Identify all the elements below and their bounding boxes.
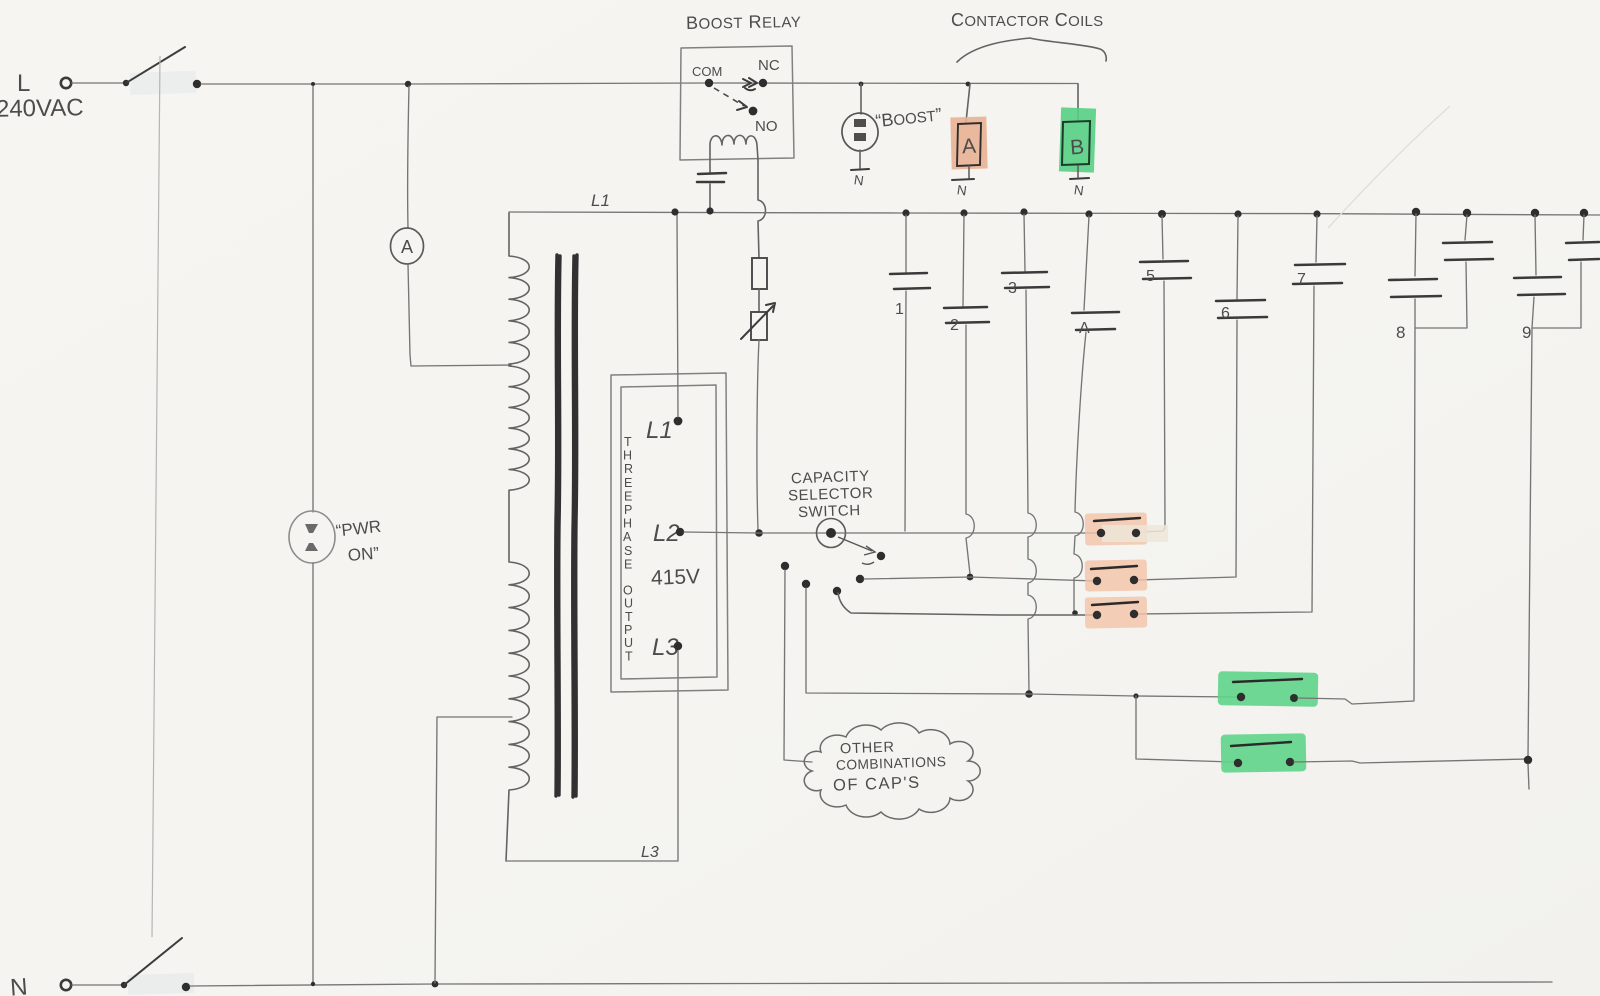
node: transformer tap 2 joins N bus	[432, 981, 439, 988]
node: selector position 2	[856, 575, 864, 583]
wire: transformer bottom to L3 (terminal riser)	[506, 650, 678, 861]
wire: branch down to contact KB2	[1136, 696, 1233, 762]
svg-text:A: A	[961, 135, 976, 159]
stray pencil arc (decorative)	[1328, 106, 1450, 228]
wire: KB1 to C8 drop	[1298, 698, 1414, 704]
svg-text:6: 6	[1221, 305, 1230, 322]
wire: C8 drop to contact KB1	[1414, 328, 1415, 700]
svg-text:ON”: ON”	[347, 544, 380, 565]
svg-text:L: L	[17, 70, 30, 97]
node: C2 joins row 2	[967, 574, 974, 581]
wire: N terminal to switch	[72, 984, 122, 986]
cloud note: OTHER COMBINATIONS OF CAP'S	[804, 723, 980, 819]
resistor R1	[752, 258, 767, 289]
terminal L3 (three-phase output)	[652, 634, 682, 661]
terminal L2 (three-phase output)	[653, 520, 684, 547]
capacitor (relay snubber)	[697, 173, 726, 209]
node: C9 drop joins KB2 wire	[1524, 756, 1532, 764]
lamp "BOOST"	[840, 82, 943, 168]
wire: resistor to varistor	[758, 289, 760, 312]
svg-text:L3: L3	[641, 844, 659, 861]
wire: relay coil right lead (hops over L1 bus)	[758, 160, 766, 258]
relay contact COM	[692, 64, 722, 87]
switch S1 bottom pole (neutral)	[121, 938, 195, 995]
capacitor C6	[1216, 210, 1267, 322]
wire: C1 lower lead to L2 row	[905, 291, 906, 531]
node: varistor joins L2 row	[755, 529, 763, 537]
contact KB2 (contactor B, pole 2)	[1221, 733, 1307, 772]
svg-text:NC: NC	[758, 57, 780, 74]
capacitor C8 (pair)	[1389, 208, 1493, 342]
capacitor CA (cap A)	[1072, 210, 1119, 337]
svg-text:A: A	[1079, 320, 1090, 337]
switch S1 top pole (line)	[123, 47, 201, 95]
contact KA2 (contactor A, pole 2)	[1085, 559, 1148, 591]
node: PWR-ON lamp joins N bus	[311, 982, 315, 986]
svg-text:240VAC: 240VAC	[0, 94, 84, 123]
wire: C5 lower lead down to contact KA1	[1141, 281, 1165, 532]
svg-text:OF CAP'S: OF CAP'S	[833, 774, 921, 795]
boost relay K1 box	[680, 11, 801, 160]
node: CA joins row 3	[1072, 610, 1078, 616]
svg-text:SELECTOR: SELECTOR	[788, 484, 874, 504]
wire: row 3 blade and run to contact KA3	[838, 593, 1096, 615]
contact KA1 (contactor A, pole 1)	[1085, 512, 1168, 545]
mechanical link between switch poles	[152, 56, 160, 937]
wire: C3 lower lead (hops rows 1-3) to bottom bus	[1026, 290, 1036, 692]
wire: L terminal to switch	[72, 82, 124, 84]
svg-text:N: N	[956, 182, 968, 198]
lamp "PWR ON"	[289, 511, 382, 565]
ammeter A	[391, 228, 424, 264]
node L (240VAC live input terminal)	[0, 70, 84, 123]
wire: varistor to L2 row	[757, 340, 759, 530]
svg-text:8: 8	[1396, 323, 1405, 342]
neutral N symbol (coil A)	[952, 179, 974, 198]
wire: PWR-ON lamp branch drop	[312, 86, 314, 512]
node: C3 joins bottom selector bus	[1025, 690, 1033, 698]
capacity selector switch SW1 (rotor)	[817, 519, 876, 565]
varistor RV1	[741, 303, 775, 340]
capacitor C2	[944, 209, 989, 334]
node: selector spare position (to cloud note)	[781, 562, 789, 570]
wire: L1 bus	[509, 212, 1600, 215]
capacitor C9 (pair)	[1514, 209, 1599, 342]
svg-text:L1: L1	[591, 191, 610, 210]
svg-text:A: A	[401, 237, 413, 257]
node: L1 riser joins bus	[671, 208, 678, 215]
node: selector position 3	[833, 587, 841, 595]
svg-text:3: 3	[1008, 280, 1017, 297]
node: snubber cap joins bus	[706, 207, 713, 214]
svg-text:1: 1	[895, 301, 904, 318]
wire: L1 terminal riser to L1 bus	[677, 214, 678, 417]
relay contact NO with actuation arrow	[714, 88, 778, 135]
transformer T1 winding	[506, 213, 529, 861]
node: selector position 4 (bottom bus)	[802, 580, 810, 588]
svg-text:THREEPHASEOUTPUT: THREEPHASEOUTPUT	[623, 435, 633, 663]
wire: CA lower lead (hops rows 1-2) to row 3	[1074, 332, 1086, 610]
capacitor C3	[1002, 208, 1049, 297]
contact KA3 (contactor A, pole 3)	[1085, 596, 1148, 628]
wire: N bottom bus	[190, 982, 1552, 986]
wire: transformer tap 2 to N bus	[435, 717, 512, 983]
wire: C7 lower lead down to contact KA3	[1138, 286, 1314, 614]
node: selector position 1	[877, 552, 885, 560]
svg-text:2: 2	[950, 317, 959, 334]
capacitor C5	[1140, 210, 1191, 285]
wire: bottom selector bus to contact KB1	[806, 588, 1236, 697]
node: tap to PWR-ON lamp	[311, 82, 315, 86]
svg-text:N: N	[9, 974, 28, 996]
relay coil K1	[710, 135, 758, 172]
wire: PWR-ON lamp to N bus	[312, 563, 314, 983]
neutral N symbol (boost lamp)	[851, 169, 869, 188]
svg-text:NO: NO	[755, 118, 778, 135]
wire: ammeter to transformer tap 1	[408, 264, 511, 366]
svg-text:N: N	[853, 172, 865, 188]
wire: stub below C9 junction	[1528, 764, 1529, 789]
wire: KB2 to C9 drop	[1294, 759, 1526, 763]
node: tap to ammeter	[405, 81, 411, 87]
wire: C6 lower lead down to contact KA2	[1138, 320, 1237, 580]
terminal L1 (three-phase output)	[646, 417, 682, 444]
transformer T1 core	[556, 255, 577, 797]
svg-text:L2: L2	[653, 520, 680, 547]
svg-text:9: 9	[1522, 323, 1531, 342]
svg-text:7: 7	[1297, 271, 1306, 288]
node: branch to contact KB2	[1133, 693, 1138, 698]
contactor coil B	[1059, 84, 1096, 177]
svg-text:5: 5	[1146, 268, 1155, 285]
three-phase output box	[611, 373, 728, 692]
brace under CONTACTOR COILS	[957, 38, 1106, 62]
capacitor C7	[1293, 210, 1345, 288]
svg-text:OTHER: OTHER	[840, 739, 895, 757]
wire: row 2 to contact KA2	[864, 577, 1096, 581]
node N (neutral input terminal)	[9, 974, 71, 996]
svg-text:CONTACTOR COILS: CONTACTOR COILS	[951, 10, 1104, 30]
relay contact NC	[743, 57, 780, 90]
svg-text:B: B	[1069, 136, 1085, 160]
wire: L2 row from terminal to selector	[684, 532, 846, 533]
wire: C9 drop to contact KB2	[1528, 328, 1532, 757]
wire: L2 row from selector to contact KA1	[846, 532, 1097, 534]
svg-text:COM: COM	[692, 64, 722, 79]
svg-text:L1: L1	[646, 417, 673, 444]
neutral N symbol (coil B)	[1070, 178, 1089, 198]
contact KB1 (contactor B, pole 1)	[1218, 671, 1319, 707]
wire: C2 lower lead (hops L2 row) to row 2	[966, 325, 974, 574]
label CAPACITY SELECTOR SWITCH	[788, 468, 874, 521]
wire: spare position drop to cloud note	[784, 570, 812, 762]
svg-text:N: N	[1073, 182, 1085, 198]
svg-text:415V: 415V	[651, 565, 701, 590]
wire: ammeter branch drop	[408, 86, 409, 228]
wire: 240VAC top bus	[201, 83, 1078, 84]
capacitor C1	[890, 209, 930, 318]
contactor coil A	[950, 82, 987, 178]
